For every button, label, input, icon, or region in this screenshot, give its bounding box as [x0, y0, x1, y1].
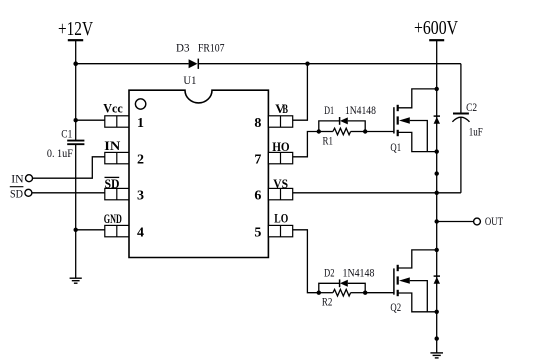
svg-text:D3: D3 — [176, 40, 190, 54]
svg-text:Q2: Q2 — [390, 300, 401, 314]
svg-text:0. 1uF: 0. 1uF — [47, 146, 73, 160]
wire D3 anode from +12V rail — [76, 63, 189, 65]
svg-text:LO: LO — [274, 211, 288, 226]
svg-text:1N4148: 1N4148 — [345, 103, 376, 117]
wire OUT tap — [437, 221, 474, 223]
svg-text:+600V: +600V — [414, 17, 458, 39]
wire R1 right node to Q1 gate — [365, 131, 394, 133]
ground symbol right — [430, 353, 443, 358]
node junction dot GND pin — [74, 228, 78, 232]
wire +12V rail upper segment — [75, 40, 77, 140]
capacitor C2 bootstrap — [452, 64, 483, 193]
node junction dot Q1 drain — [435, 87, 439, 91]
wire R2 right node to Q2 gate — [365, 292, 394, 294]
svg-text:D1: D1 — [324, 103, 334, 117]
ground symbol left — [70, 278, 82, 283]
node junction dot R2/D2 right — [363, 291, 367, 295]
wire +12V rail lower segment — [75, 145, 77, 278]
svg-text:SD: SD — [105, 176, 120, 191]
wire VB pin 8 to bootstrap node — [293, 64, 308, 120]
pin 6 VS pad box — [268, 188, 292, 199]
svg-text:VS: VS — [273, 176, 288, 191]
svg-text:U1: U1 — [183, 73, 196, 87]
node junction dot Q1 source — [435, 149, 439, 153]
svg-text:+12V: +12V — [58, 18, 93, 40]
node junction dot mid rail — [435, 171, 439, 175]
wire D3 cathode to bootstrap / C2 top — [198, 63, 461, 65]
op-amp U1 IC body — [129, 73, 268, 258]
+600V rail bar — [429, 39, 444, 41]
svg-text:1N4148: 1N4148 — [343, 266, 375, 280]
pin 1 Vcc pad box — [105, 116, 129, 127]
svg-text:FR107: FR107 — [198, 40, 225, 54]
svg-text:2: 2 — [137, 153, 144, 168]
wire +600V half-bridge rail — [436, 40, 438, 353]
pin 2 IN pad box — [105, 152, 129, 163]
node junction dot Q2 drain — [435, 248, 439, 252]
wire GND pin 4 to rail — [76, 229, 105, 231]
pin 3 SD pad box — [105, 188, 129, 199]
node junction dot Vcc — [74, 118, 78, 122]
node junction dot +12V/D3 — [73, 61, 78, 66]
node junction dot R1/D1 left — [317, 129, 321, 133]
wire SD terminal to pin 3 — [32, 192, 105, 194]
transistor Q2 N-MOSFET — [390, 250, 437, 314]
node junction dot VS — [435, 191, 439, 195]
svg-text:5: 5 — [254, 226, 261, 241]
node junction dot bootstrap/VB — [305, 62, 309, 66]
svg-text:8: 8 — [254, 116, 261, 131]
svg-text:4: 4 — [137, 226, 144, 241]
pin label SD with overline — [105, 176, 120, 191]
+12V rail bar — [68, 39, 83, 41]
node OUT terminal — [474, 214, 504, 228]
diode D1 1N4148 parallel branch — [319, 103, 376, 132]
wire LO pin 5 to R2/D2 left node — [293, 230, 319, 293]
wire VS pin 6 to half-bridge midpoint and C2 bottom — [293, 192, 461, 194]
diode Q1 body diode — [434, 116, 440, 124]
svg-text:R2: R2 — [322, 295, 333, 309]
diode Q2 body diode — [434, 276, 440, 284]
node junction dot R2/D2 left — [317, 291, 321, 295]
diode D2 1N4148 parallel branch — [319, 266, 375, 293]
svg-text:1uF: 1uF — [469, 125, 483, 139]
svg-text:C1: C1 — [61, 127, 72, 141]
wire Vcc pin 1 to rail — [76, 119, 105, 121]
svg-text:B: B — [282, 101, 288, 116]
svg-text:6: 6 — [254, 189, 261, 204]
svg-text:C2: C2 — [466, 100, 477, 114]
pin 7 HO pad box — [268, 152, 292, 163]
wire HO pin 7 to R1/D1 left node — [293, 132, 319, 157]
svg-text:3: 3 — [137, 189, 144, 204]
svg-text:IN: IN — [11, 171, 24, 185]
wire IN terminal to pin 2 — [33, 157, 105, 178]
pin 8 VB pad box — [268, 116, 292, 127]
svg-text:IN: IN — [104, 138, 121, 153]
svg-text:7: 7 — [254, 153, 261, 168]
diode D3 FR107 — [176, 40, 225, 69]
svg-text:D2: D2 — [324, 266, 335, 280]
resistor R2 — [319, 289, 365, 308]
svg-text:GND: GND — [104, 211, 122, 226]
node junction dot Q2 source — [435, 310, 439, 314]
node IN input terminal — [11, 171, 32, 185]
svg-text:OUT: OUT — [485, 214, 504, 228]
pin 4 GND pad box — [105, 225, 129, 236]
node SD input terminal with overline — [10, 187, 32, 201]
svg-text:HO: HO — [272, 139, 290, 154]
resistor R1 — [319, 128, 365, 147]
transistor Q1 N-MOSFET — [390, 89, 437, 154]
node junction dot lower rail — [435, 336, 439, 340]
svg-text:SD: SD — [10, 187, 23, 201]
svg-text:1: 1 — [137, 116, 144, 131]
svg-text:Q1: Q1 — [390, 140, 401, 154]
svg-text:R1: R1 — [323, 134, 334, 148]
pin 5 LO pad box — [268, 225, 292, 236]
capacitor C1 — [47, 127, 85, 161]
node junction dot R1/D1 right — [363, 129, 367, 133]
svg-text:Vcc: Vcc — [103, 101, 123, 116]
node junction dot OUT tap — [435, 219, 439, 223]
